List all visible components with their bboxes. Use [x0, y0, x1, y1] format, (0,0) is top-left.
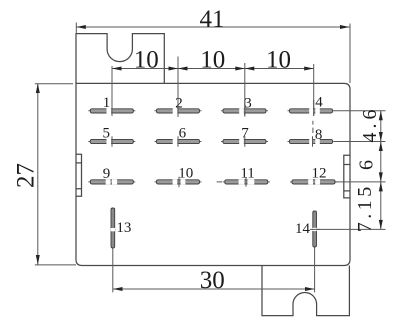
svg-text:12: 12 [312, 166, 327, 182]
svg-text:9: 9 [103, 166, 111, 182]
svg-text:4.6: 4.6 [359, 106, 381, 143]
svg-text:7: 7 [241, 126, 249, 142]
svg-text:27: 27 [13, 163, 40, 188]
svg-text:14: 14 [295, 221, 311, 237]
svg-text:6: 6 [179, 125, 187, 141]
svg-text:5: 5 [103, 125, 111, 141]
svg-text:10: 10 [178, 166, 193, 182]
svg-text:30: 30 [200, 267, 225, 294]
svg-text:13: 13 [116, 220, 131, 236]
svg-text:7.15: 7.15 [354, 183, 376, 232]
svg-text:1: 1 [103, 95, 111, 111]
svg-text:41: 41 [200, 6, 225, 33]
svg-text:10: 10 [134, 47, 159, 74]
svg-text:4: 4 [315, 95, 323, 111]
svg-text:8: 8 [315, 127, 323, 143]
svg-text:2: 2 [175, 96, 183, 112]
svg-text:6: 6 [356, 160, 378, 170]
svg-text:3: 3 [244, 96, 252, 112]
svg-text:10: 10 [266, 47, 291, 74]
svg-text:10: 10 [200, 47, 225, 74]
svg-text:11: 11 [240, 166, 254, 182]
